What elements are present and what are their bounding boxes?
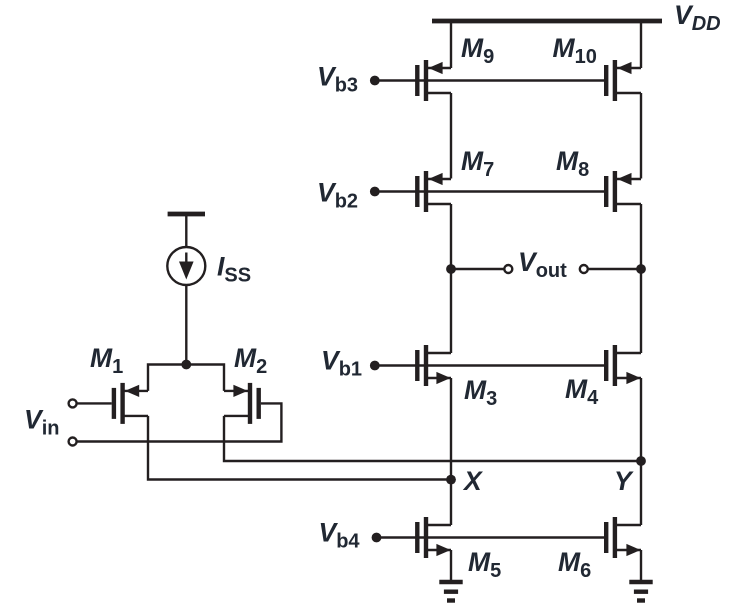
- Vout left open terminal: [504, 265, 512, 273]
- wire M4 source down through node Y to M6 drain: [640, 378, 642, 525]
- wire Vout left stub: [451, 268, 504, 270]
- svg-text:Vb4: Vb4: [319, 518, 361, 553]
- power supply bar above ISS: [168, 212, 205, 217]
- Vout right open terminal: [580, 265, 588, 273]
- svg-text:Vb2: Vb2: [317, 178, 358, 213]
- svg-text:M1: M1: [90, 343, 123, 378]
- svg-text:M2: M2: [234, 343, 267, 378]
- svg-text:M4: M4: [565, 374, 599, 409]
- svg-text:M7: M7: [461, 146, 494, 181]
- wire M10 drain to M8 source: [640, 93, 642, 179]
- wire Vout right stub: [589, 268, 642, 270]
- wire Vin minus to M2 gate: [77, 403, 281, 441]
- transistor M5: [417, 517, 451, 558]
- transistor M3: [417, 345, 451, 386]
- node Vb4 terminal dot: [372, 533, 382, 543]
- svg-text:M10: M10: [553, 33, 597, 68]
- transistor M2: [224, 383, 259, 424]
- svg-text:Y: Y: [614, 466, 634, 496]
- wire VDD to M10 source: [640, 21, 642, 68]
- svg-text:Vb3: Vb3: [317, 62, 358, 97]
- wire net Vb4 to gates of M5 and M6: [379, 536, 607, 538]
- node Y junction dot: [636, 456, 646, 466]
- wire net Vb1 to gates of M3 and M4: [377, 364, 606, 366]
- wire M7 drain down through Vout node to M3 drain: [450, 204, 452, 353]
- VDD power rail: [432, 19, 662, 24]
- wire M1 drain down and right to node X: [148, 416, 451, 480]
- wire tail node to M1 and M2 sources: [148, 365, 224, 391]
- wire M6 source to ground: [640, 550, 642, 580]
- wire Vin plus to M1 gate: [77, 402, 111, 404]
- transistor M4: [606, 345, 641, 386]
- node Vb3 terminal dot: [370, 76, 380, 86]
- junction left Vout node: [446, 264, 456, 274]
- node Vb2 terminal dot: [370, 187, 380, 197]
- transistor M6: [606, 517, 641, 558]
- wire M2 drain down and right to node Y: [224, 416, 641, 461]
- node Vb1 terminal dot: [370, 361, 380, 371]
- svg-text:VDD: VDD: [674, 0, 721, 35]
- wire M9 drain to M7 source: [450, 93, 452, 179]
- svg-text:M9: M9: [461, 33, 494, 68]
- svg-text:Vb1: Vb1: [321, 346, 362, 381]
- node X junction dot: [446, 475, 456, 485]
- svg-text:X: X: [462, 466, 483, 496]
- svg-text:Vin: Vin: [24, 405, 59, 440]
- svg-text:M6: M6: [558, 547, 591, 582]
- Vin minus input open terminal: [69, 438, 77, 446]
- Vin plus input open terminal: [69, 399, 77, 407]
- transistor M8: [606, 171, 641, 212]
- current source ISS: [167, 247, 205, 285]
- transistor M10: [606, 60, 641, 101]
- wire net Vb3 to gates of M9 and M10: [377, 79, 606, 81]
- wire M3 source down through node X to M5 drain: [450, 378, 452, 525]
- wire ISS to tail node: [185, 285, 187, 365]
- svg-text:ISS: ISS: [217, 252, 251, 287]
- svg-text:Vout: Vout: [518, 247, 567, 282]
- wire M5 source to ground: [450, 550, 452, 580]
- wire M8 drain down through Vout node to M4 drain: [640, 204, 642, 353]
- svg-text:M5: M5: [468, 547, 501, 582]
- svg-text:M3: M3: [464, 375, 497, 410]
- transistor M7: [417, 171, 451, 212]
- wire net Vb2 to gates of M7 and M8: [377, 190, 606, 192]
- transistor M9: [417, 60, 451, 101]
- ground symbol below M6: [629, 582, 652, 601]
- wire VDD to M9 source: [450, 21, 452, 68]
- wire supply bar to ISS: [185, 214, 187, 247]
- ground symbol below M5: [439, 582, 462, 601]
- junction tail node dot: [181, 360, 191, 370]
- junction right Vout node: [636, 264, 646, 274]
- transistor M1: [114, 383, 148, 424]
- svg-text:M8: M8: [556, 146, 589, 181]
